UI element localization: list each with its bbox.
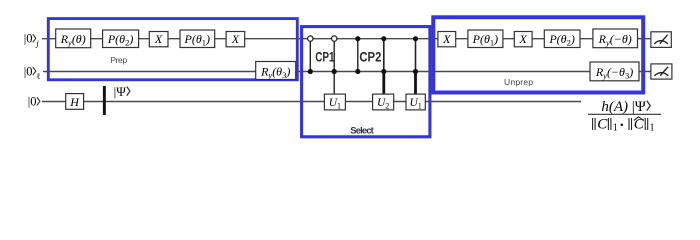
- svg-text:C: C: [597, 117, 608, 133]
- ket |0>_l label: [24, 64, 41, 80]
- svg-text:Ry(θ3): Ry(θ3): [260, 65, 290, 80]
- svg-text:Unprep: Unprep: [504, 77, 533, 87]
- gate H on wire psi: [66, 94, 84, 110]
- measurement meter on wire j: [651, 32, 671, 48]
- svg-text:ℓ: ℓ: [36, 71, 40, 81]
- formula fraction bar: [588, 113, 661, 115]
- ket |Psi> label: [114, 84, 130, 99]
- control line CP2-b (dot through dot to U2): [381, 36, 386, 94]
- svg-text:Ry(θ): Ry(θ): [60, 32, 86, 47]
- control line CP1-a (open circle to dot): [308, 36, 313, 74]
- svg-text:P(θ1): P(θ1): [472, 32, 498, 47]
- gate U1 (second): [406, 94, 425, 110]
- formula denominator ||C||1 . ||Chat||1: [593, 117, 655, 134]
- gate Ry(theta3) on wire l: [256, 62, 296, 81]
- gate P(theta2) unprep: [544, 30, 580, 48]
- svg-text:X: X: [154, 32, 163, 46]
- gate Ry(-theta3) on wire l: [590, 62, 639, 81]
- Prep dashed-blue enclosure box: [48, 19, 297, 80]
- ket |0> label: [28, 95, 40, 109]
- gate U1 (first): [324, 94, 345, 110]
- svg-text:X: X: [231, 32, 240, 46]
- svg-text:X: X: [519, 32, 528, 46]
- svg-text:1: 1: [650, 123, 655, 134]
- svg-text:1: 1: [613, 123, 618, 134]
- gate X (first, unprep): [438, 32, 456, 47]
- svg-text:X: X: [442, 32, 451, 46]
- gate Ry(-theta): [593, 29, 638, 48]
- svg-text:P(θ1): P(θ1): [184, 32, 210, 47]
- formula numerator h(A)|Psi>: [601, 99, 650, 115]
- measurement meter on wire l: [651, 64, 672, 79]
- gate P(theta2): [103, 30, 139, 48]
- wire qubit l (middle): [43, 71, 651, 73]
- gate X (second, unprep): [514, 32, 532, 47]
- gate P(theta1): [180, 30, 215, 48]
- svg-text:Select: Select: [350, 125, 373, 136]
- svg-text:CP1: CP1: [315, 49, 335, 64]
- svg-text:|Ψ: |Ψ: [632, 99, 647, 115]
- svg-text:P(θ2): P(θ2): [548, 32, 574, 47]
- gate P(theta1) unprep: [468, 30, 503, 48]
- svg-text:Ry(−θ): Ry(−θ): [598, 32, 632, 47]
- gate U2: [373, 94, 394, 110]
- svg-text:CP2: CP2: [359, 49, 381, 64]
- wire qubit psi (bottom): [42, 101, 581, 103]
- Select blue enclosure box: [302, 27, 430, 137]
- ket |0>_j label: [24, 32, 40, 48]
- svg-text:|0: |0: [28, 95, 37, 109]
- gate X (first, prep): [149, 32, 168, 47]
- svg-text:|Ψ: |Ψ: [114, 84, 127, 99]
- control line to U1b (dot through dot to U1): [413, 36, 418, 94]
- Unprep blue enclosure box: [433, 17, 643, 92]
- wire qubit j (top): [42, 38, 651, 40]
- svg-text:|0: |0: [24, 64, 33, 78]
- svg-text:H: H: [69, 95, 80, 109]
- gate X (second, prep): [226, 32, 245, 47]
- control line CP2-a (dot to dot): [355, 36, 360, 74]
- svg-text:Prep: Prep: [110, 55, 127, 65]
- control line CP1-b (open circle through dot to U1): [332, 36, 337, 94]
- svg-text:P(θ2): P(θ2): [107, 32, 133, 47]
- gate Ry(theta): [56, 29, 91, 48]
- svg-text:h(A): h(A): [601, 99, 628, 115]
- state barrier bar: [103, 86, 106, 115]
- svg-text:|0: |0: [24, 32, 33, 46]
